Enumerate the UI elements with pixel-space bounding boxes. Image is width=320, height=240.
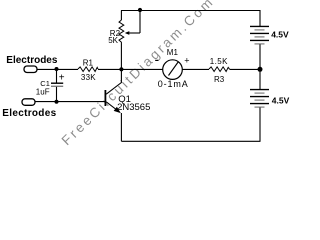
wire top rail xyxy=(121,10,261,12)
R2 wiper arrow and wire to top rail xyxy=(125,10,140,35)
node dot R1/R2/collector junction xyxy=(119,67,123,71)
svg-text:2N3565: 2N3565 xyxy=(117,102,150,113)
potentiometer R2 xyxy=(108,11,124,70)
svg-text:5K: 5K xyxy=(108,36,118,45)
svg-text:R3: R3 xyxy=(214,75,225,84)
svg-text:M1: M1 xyxy=(167,48,179,57)
svg-text:33K: 33K xyxy=(81,73,96,82)
svg-text:0-1mA: 0-1mA xyxy=(158,79,189,89)
node dot C1 top xyxy=(55,67,59,71)
svg-text:Electrodes: Electrodes xyxy=(2,108,56,119)
resistor R1 xyxy=(78,58,98,82)
node dot battery middle tap xyxy=(258,67,263,72)
capacitor C1 xyxy=(36,69,65,102)
electrode top oval xyxy=(6,55,58,73)
electrode bottom oval xyxy=(2,99,56,119)
wire meter to R3 xyxy=(182,68,209,70)
svg-text:+: + xyxy=(184,55,189,65)
collector lead xyxy=(106,69,121,94)
svg-text:4.5V: 4.5V xyxy=(271,30,289,40)
wire bottom electrode to base xyxy=(35,101,105,103)
battery B1 4.5V top xyxy=(250,10,289,69)
wire R3 to battery column xyxy=(230,68,261,70)
emitter lead with arrow xyxy=(106,102,119,112)
wire left electrode to R1 xyxy=(37,68,78,70)
svg-text:1uF: 1uF xyxy=(36,88,50,97)
svg-text:Electrodes: Electrodes xyxy=(6,55,58,66)
svg-text:1.5K: 1.5K xyxy=(210,57,228,66)
battery B2 4.5V bottom xyxy=(250,69,290,141)
svg-text:4.5V: 4.5V xyxy=(272,96,290,106)
transistor Q1 xyxy=(105,69,150,141)
node dot C1 bottom xyxy=(55,100,59,104)
meter M1 xyxy=(155,48,189,89)
wire R1 to meter xyxy=(98,68,163,70)
wire bottom rail xyxy=(121,140,260,142)
svg-text:R1: R1 xyxy=(83,58,94,67)
node dot wiper/top-rail xyxy=(138,8,142,12)
resistor R3 xyxy=(209,57,230,84)
svg-text:+: + xyxy=(59,72,65,83)
